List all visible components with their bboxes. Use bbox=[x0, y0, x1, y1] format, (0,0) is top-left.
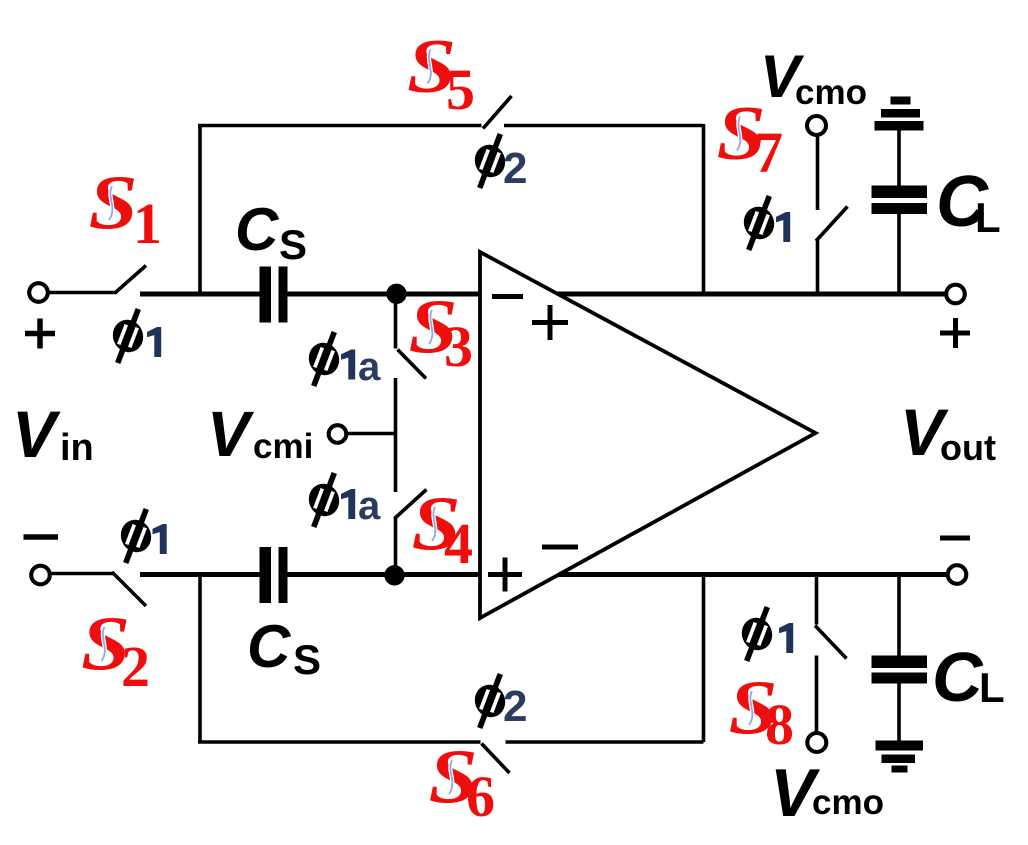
svg-text:a: a bbox=[358, 345, 381, 389]
svg-text:4: 4 bbox=[444, 511, 473, 576]
svg-text:V: V bbox=[207, 398, 255, 470]
svg-text:C: C bbox=[235, 196, 280, 263]
svg-text:cmo: cmo bbox=[812, 783, 884, 822]
svg-text:out: out bbox=[940, 427, 996, 468]
svg-text:cmo: cmo bbox=[795, 73, 867, 112]
svg-text:7: 7 bbox=[754, 120, 783, 185]
svg-text:2: 2 bbox=[121, 634, 150, 699]
svg-text:S: S bbox=[293, 636, 321, 683]
svg-text:2: 2 bbox=[503, 682, 527, 731]
svg-text:6: 6 bbox=[466, 764, 495, 829]
svg-text:8: 8 bbox=[765, 692, 794, 757]
svg-text:S: S bbox=[279, 221, 307, 268]
svg-text:V: V bbox=[12, 397, 61, 471]
svg-text:a: a bbox=[358, 484, 381, 528]
svg-text:1: 1 bbox=[133, 191, 162, 256]
svg-text:C: C bbox=[247, 613, 292, 680]
svg-text:cmi: cmi bbox=[253, 427, 313, 466]
svg-text:5: 5 bbox=[446, 57, 475, 122]
svg-text:2: 2 bbox=[503, 144, 527, 193]
svg-text:3: 3 bbox=[444, 314, 473, 379]
svg-text:in: in bbox=[60, 427, 94, 469]
svg-text:L: L bbox=[975, 194, 1001, 241]
svg-text:L: L bbox=[979, 664, 1005, 711]
svg-text:C: C bbox=[932, 638, 984, 716]
